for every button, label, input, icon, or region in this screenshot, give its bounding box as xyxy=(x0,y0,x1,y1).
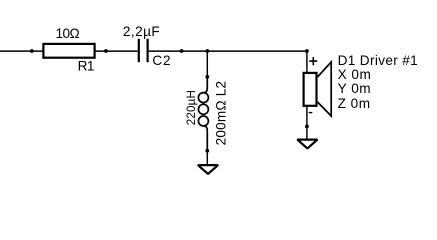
ground symbol under driver xyxy=(297,140,317,149)
node: junction dot right of R1 xyxy=(104,49,108,53)
svg-text:Y 0m: Y 0m xyxy=(338,81,371,96)
node: junction dot at L2 branch xyxy=(205,49,209,53)
wire: C2 to driver corner xyxy=(149,50,307,52)
inductor L2 bottom lead xyxy=(204,126,207,151)
ground symbol under L2 xyxy=(198,165,218,174)
svg-text:200mΩ L2: 200mΩ L2 xyxy=(213,81,228,146)
wire: input from left edge to R1 xyxy=(0,50,43,52)
wire: driver bottom to ground xyxy=(306,106,308,140)
label - terminal of driver xyxy=(309,112,313,113)
inductor L2 coil loop 3 xyxy=(198,116,208,126)
capacitor C2 left plate xyxy=(138,39,140,62)
inductor L2 top lead xyxy=(204,77,207,93)
node: junction dot left of R1 xyxy=(30,49,34,53)
svg-text:2,2µF: 2,2µF xyxy=(123,24,160,39)
svg-text:Z 0m: Z 0m xyxy=(338,96,371,111)
resistor R1 body xyxy=(43,44,94,58)
svg-text:C2: C2 xyxy=(152,53,171,68)
inductor L2 coil loop 2 xyxy=(198,104,208,114)
speaker driver D1 body xyxy=(304,73,317,106)
speaker driver D1 cone xyxy=(318,62,332,116)
svg-text:R1: R1 xyxy=(78,59,94,74)
node: junction dot mid wire xyxy=(180,49,184,53)
node: L2 top pin dot xyxy=(205,75,209,79)
inductor L2 coil loop 1 xyxy=(198,93,208,103)
node: L2 bottom pin dot xyxy=(205,149,209,153)
wire: driver branch down xyxy=(306,51,308,73)
node: corner dot above driver xyxy=(305,49,309,53)
wire: R1 to C2 xyxy=(95,50,138,52)
capacitor C2 right plate xyxy=(147,39,149,62)
svg-text:220µH: 220µH xyxy=(185,90,198,125)
label + terminal of driver xyxy=(309,57,317,65)
wire: branch down to L2 xyxy=(206,51,208,77)
svg-text:X 0m: X 0m xyxy=(338,67,372,82)
svg-text:D1 Driver #1: D1 Driver #1 xyxy=(338,53,419,68)
node: driver ground pin dot xyxy=(305,125,309,129)
wire: L2 to ground stem xyxy=(206,151,208,165)
svg-text:10Ω: 10Ω xyxy=(55,26,79,41)
